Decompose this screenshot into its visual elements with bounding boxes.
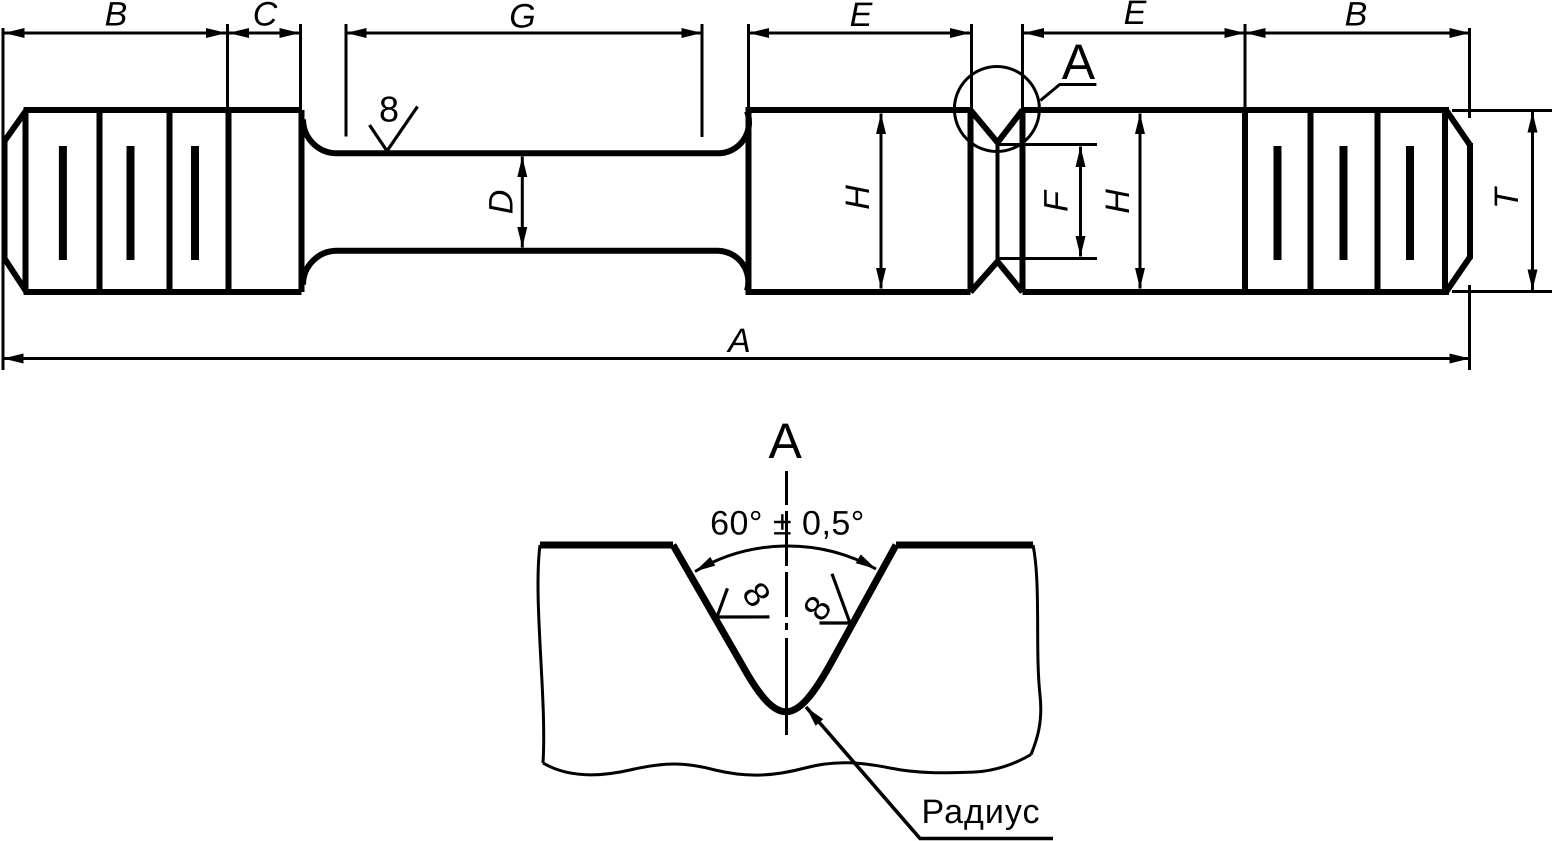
right section top edge [1023, 107, 1450, 113]
dimension line E2 [1024, 32, 1246, 35]
detail roughness mark right [805, 574, 867, 638]
svg-text:8: 8 [379, 89, 399, 130]
right grip divider 2 [1308, 110, 1314, 292]
extension line left (A,B) [2, 28, 5, 370]
notch left vertical edge [968, 110, 974, 292]
arrow A right [1450, 354, 1471, 364]
narrow section bottom edge [337, 248, 718, 254]
svg-text:B: B [1345, 0, 1368, 34]
grip divider 1 [97, 110, 103, 292]
grip divider 3 (B/C boundary) [226, 110, 232, 292]
svg-text:A: A [769, 413, 803, 469]
dimension line H right [1139, 114, 1142, 289]
extension line T top [1452, 109, 1552, 112]
arrow G left [346, 28, 367, 38]
dimension line B2 [1245, 32, 1470, 35]
dimension line E [749, 32, 971, 35]
detail block top surface left [540, 542, 673, 549]
detail block bottom break edge [543, 755, 1031, 776]
right section bottom edge [1023, 289, 1450, 295]
arrow H1 down [876, 268, 886, 289]
arrow D down [517, 227, 527, 248]
extension line notch left [970, 24, 973, 110]
arrow H2 up [1135, 114, 1145, 135]
grip slot 2 [127, 146, 135, 260]
right grip divider 1 (E/B boundary) [1242, 110, 1248, 292]
H-section top edge [746, 107, 971, 113]
arrow B2 right [1450, 28, 1471, 38]
svg-text:B: B [105, 0, 128, 34]
notch top V left flank [971, 110, 998, 143]
detail block left break edge [538, 545, 544, 763]
extension line E2/B2 [1244, 24, 1247, 110]
arrow E2 right [1225, 28, 1246, 38]
detail center line [785, 471, 788, 735]
notch root line [996, 143, 1000, 262]
extension line E left [747, 24, 750, 107]
notch bottom V right flank [998, 262, 1023, 293]
svg-text:H: H [1099, 189, 1137, 214]
arrow D up [517, 157, 527, 178]
right grip slot 2 [1340, 146, 1348, 260]
arrow E2 left [1024, 28, 1045, 38]
top-left fillet [303, 119, 337, 153]
extension line G left [345, 24, 348, 137]
notch top V right flank [998, 110, 1023, 143]
right end face [1467, 143, 1473, 259]
extension line B/C [226, 24, 229, 110]
grip slot 3 [191, 146, 199, 260]
detail roughness mark left [707, 578, 769, 642]
arrow F up [1076, 147, 1086, 168]
arrow T down [1528, 270, 1538, 291]
dimension line C [229, 32, 301, 35]
arrow C right [280, 28, 301, 38]
extension line right (A,B) [1468, 28, 1471, 370]
right chamfer base line [1442, 110, 1448, 292]
svg-text:D: D [483, 190, 521, 215]
arrow F down [1076, 236, 1086, 257]
arrow H1 up [876, 114, 886, 135]
svg-text:A: A [1062, 34, 1096, 90]
extension line T bottom [1452, 290, 1552, 293]
right grip-section left face [746, 110, 752, 292]
bottom-right fillet [718, 251, 748, 291]
grip divider 2 [167, 110, 173, 292]
narrow section top edge [337, 150, 718, 156]
arrow H2 down [1135, 268, 1145, 289]
svg-text:A: A [726, 322, 751, 360]
detail block right break edge [1031, 545, 1041, 755]
notch right vertical edge [1020, 110, 1026, 292]
detail leader to Радиус [806, 707, 1053, 839]
grip slot 1 [59, 146, 67, 260]
svg-text:G: G [509, 0, 535, 36]
svg-text:H: H [839, 185, 877, 210]
specimen left bottom chamfer [5, 259, 27, 293]
detail arc arrow left [695, 557, 715, 572]
arrow G right [682, 28, 703, 38]
svg-text:C: C [253, 0, 278, 34]
H-section bottom edge [746, 289, 971, 295]
notch bottom V left flank [971, 262, 998, 293]
bottom-left fillet [303, 251, 337, 285]
specimen chamfer base line left [23, 110, 29, 292]
specimen left end face [2, 141, 8, 259]
detail angle arc [695, 546, 876, 572]
dimension line B [4, 32, 227, 35]
extension line C right [299, 24, 302, 110]
arrow E right [950, 28, 971, 38]
arrow T up [1528, 112, 1538, 133]
dimension line H left [880, 114, 883, 289]
detail block top surface right [896, 542, 1033, 549]
svg-text:60° ± 0,5°: 60° ± 0,5° [710, 505, 865, 543]
svg-text:T: T [1488, 186, 1526, 209]
right top chamfer [1446, 110, 1470, 145]
right grip slot 3 [1406, 146, 1414, 260]
svg-text:E: E [850, 0, 873, 34]
dimension line F [1079, 147, 1082, 257]
dimension line T [1531, 112, 1534, 290]
arrow E left [749, 28, 770, 38]
right grip slot 1 [1274, 146, 1282, 260]
detail arc arrow right [856, 554, 876, 569]
svg-text:F: F [1038, 189, 1076, 212]
detail radius arrow [806, 707, 823, 726]
specimen bottom edge left head [24, 289, 302, 295]
detail circle A [954, 67, 1039, 152]
extension line G right [701, 24, 704, 137]
left shoulder face [299, 110, 305, 292]
svg-text:Радиус: Радиус [922, 793, 1041, 831]
arrow B left [4, 28, 25, 38]
arrow A left [3, 354, 24, 364]
dimension line A [3, 357, 1470, 360]
right bottom chamfer [1446, 257, 1470, 292]
detail notch profile [673, 545, 896, 712]
dimension line D [521, 157, 524, 248]
arrow B2 left [1245, 28, 1266, 38]
specimen left top chamfer [5, 110, 27, 141]
right grip divider 3 [1375, 110, 1381, 292]
svg-text:E: E [1124, 0, 1147, 32]
arrow C left [229, 28, 250, 38]
top-right fillet [718, 111, 749, 153]
extension line F bottom [999, 257, 1097, 260]
arrow B right [206, 28, 227, 38]
roughness mark top [370, 107, 418, 152]
specimen top edge left head [24, 107, 302, 113]
extension line F top [999, 143, 1097, 146]
extension line notch right [1021, 24, 1024, 110]
detail leader line [1040, 85, 1096, 101]
arrowheads [3, 28, 1538, 364]
dimension line G [346, 32, 702, 35]
